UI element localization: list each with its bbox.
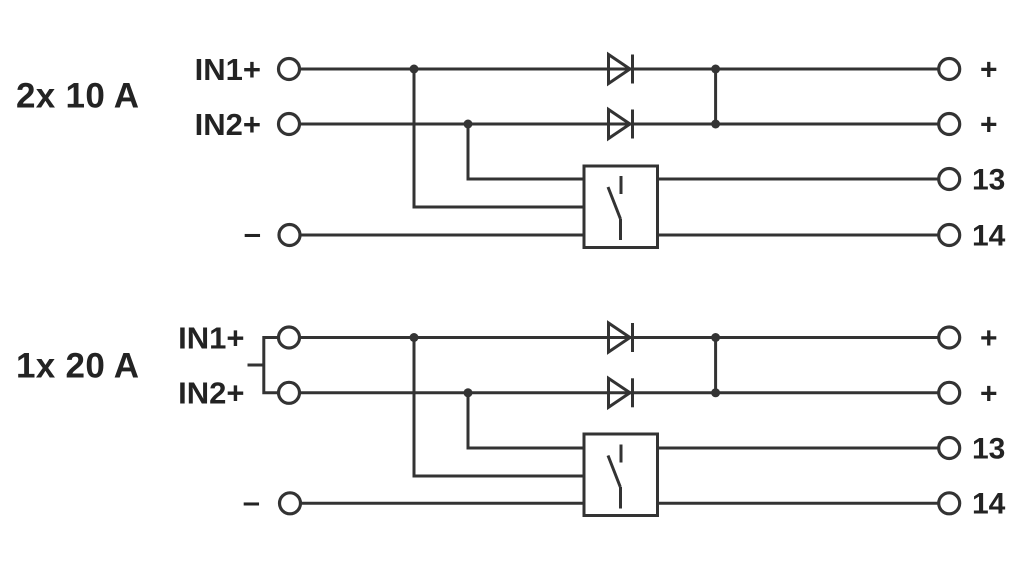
label IN2+ (circuit 2): [178, 376, 244, 411]
diode D2 (circuit 1, IN2 branch): [609, 110, 633, 139]
label 14 (circuit 1): [972, 219, 1006, 252]
wire input bridge bracket (circuit 2): [264, 338, 279, 393]
wire junction drop from IN2 to relay (circuit 2): [468, 393, 585, 448]
label IN1+ (circuit 2): [178, 320, 244, 355]
svg-text:–: –: [244, 216, 261, 251]
wire IN2+ horizontal (circuit 1): [299, 123, 938, 126]
label + output 2 (circuit 2): [980, 377, 998, 410]
label + output 1 (circuit 2): [980, 322, 998, 355]
svg-text:+: +: [980, 377, 998, 410]
caption "2x 10 A": [16, 77, 139, 116]
wire diode cathode bus vertical (circuit 2): [714, 338, 717, 393]
terminal IN2+ (circuit 1): [279, 114, 300, 135]
svg-text:IN2+: IN2+: [178, 376, 244, 411]
label "-" (circuit 1 negative input): [244, 216, 261, 251]
node junction dot on IN2 wire (circuit 2): [464, 388, 473, 397]
relay K1 contact symbol (circuit 1): [608, 176, 621, 240]
terminal IN1+ (circuit 1): [279, 59, 300, 80]
caption "1x 20 A": [16, 347, 139, 386]
wire relay output to terminal 13 (circuit 1): [656, 178, 938, 181]
wire negative rail to terminal 14 (circuit 1): [300, 234, 938, 237]
svg-text:IN1+: IN1+: [178, 320, 244, 355]
wire diode cathode bus vertical (circuit 1): [714, 69, 717, 124]
svg-text:1x 20 A: 1x 20 A: [16, 347, 139, 386]
wire negative rail to terminal 14 (circuit 2): [300, 502, 938, 505]
terminal 14 (circuit 1): [939, 225, 960, 246]
label 14 (circuit 2): [972, 488, 1006, 521]
terminal IN2+ (circuit 2): [279, 382, 300, 403]
diode D1 (circuit 1, IN1 branch): [609, 55, 633, 84]
label 13 (circuit 1): [972, 163, 1005, 196]
diode D4 (circuit 2, IN2 branch): [609, 378, 633, 407]
wire IN1+ horizontal (circuit 2): [299, 336, 938, 339]
relay K2 box (circuit 2): [584, 434, 658, 516]
terminal 13 (circuit 1): [939, 169, 960, 190]
terminal + output 1 (circuit 1): [939, 59, 960, 80]
terminal + output 2 (circuit 1): [939, 114, 960, 135]
diode D3 (circuit 2, IN1 branch): [609, 323, 633, 352]
wire input bridge stub (circuit 2): [248, 364, 264, 367]
label + output 2 (circuit 1): [980, 109, 998, 142]
wire junction drop from IN1 to relay (circuit 2): [414, 338, 585, 477]
svg-text:IN1+: IN1+: [195, 52, 261, 87]
svg-text:14: 14: [972, 219, 1006, 252]
terminal 13 (circuit 2): [939, 438, 960, 459]
wire junction drop from IN1 to relay (circuit 1): [414, 69, 585, 207]
relay K2 contact symbol (circuit 2): [608, 445, 621, 509]
label 13 (circuit 2): [972, 432, 1005, 465]
node junction dot diode 2 output (circuit 2): [711, 388, 720, 397]
svg-text:13: 13: [972, 432, 1005, 465]
terminal + output 1 (circuit 2): [939, 327, 960, 348]
wire IN1+ horizontal (circuit 1): [299, 68, 938, 71]
label + output 1 (circuit 1): [980, 54, 998, 87]
node junction dot on IN1 wire (circuit 1): [410, 65, 419, 74]
label IN1+ (circuit 1): [195, 52, 261, 87]
terminal IN1+ (circuit 2): [279, 327, 300, 348]
svg-text:+: +: [980, 322, 998, 355]
terminal 14 (circuit 2): [939, 493, 960, 514]
node junction dot on IN2 wire (circuit 1): [464, 120, 473, 129]
svg-text:–: –: [243, 484, 260, 519]
wire relay output to terminal 13 (circuit 2): [656, 447, 938, 450]
node junction dot diode 1 output (circuit 1): [711, 65, 720, 74]
svg-text:13: 13: [972, 163, 1005, 196]
label IN2+ (circuit 1): [195, 107, 261, 142]
svg-text:IN2+: IN2+: [195, 107, 261, 142]
terminal negative (circuit 2): [280, 493, 301, 514]
svg-text:14: 14: [972, 488, 1006, 521]
wire junction drop from IN2 to relay (circuit 1): [468, 124, 585, 179]
svg-text:+: +: [980, 109, 998, 142]
svg-text:+: +: [980, 54, 998, 87]
relay K1 box (circuit 1): [584, 166, 658, 248]
label "-" (circuit 2 negative input): [243, 484, 260, 519]
terminal negative (circuit 1): [279, 225, 300, 246]
node junction dot on IN1 wire (circuit 2): [410, 333, 419, 342]
terminal + output 2 (circuit 2): [939, 382, 960, 403]
node junction dot diode 1 output (circuit 2): [711, 333, 720, 342]
svg-text:2x 10 A: 2x 10 A: [16, 77, 139, 116]
node junction dot diode 2 output (circuit 1): [711, 120, 720, 129]
wire IN2+ horizontal (circuit 2): [299, 391, 938, 394]
